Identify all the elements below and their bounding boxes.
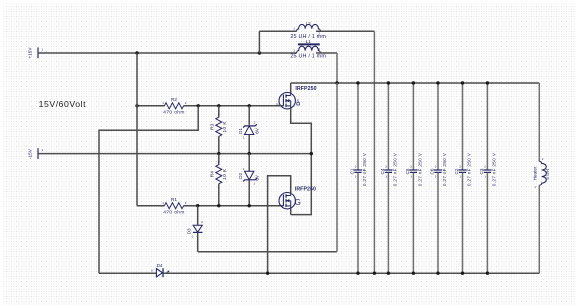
wire Q2 source stub [290, 208, 292, 214]
svg-text:0.27 nF 250 V: 0.27 nF 250 V [467, 152, 472, 186]
wire +15V rail [39, 52, 297, 54]
svg-text:C3: C3 [479, 168, 484, 174]
svg-text:+15V: +15V [28, 47, 33, 59]
wire Q1 drain stub [290, 83, 292, 93]
svg-text:6V: 6V [255, 127, 260, 134]
wire D3 cathode lead [197, 232, 199, 251]
node C6 top junction [436, 81, 439, 84]
svg-text:0.27 nF 250 V: 0.27 nF 250 V [492, 152, 497, 186]
node D2 bottom junction [248, 204, 251, 207]
wire R4 bottom lead [218, 184, 220, 206]
wire C6 top rail [437, 83, 439, 170]
wire Q2 drain loop [268, 176, 291, 273]
svg-text:L2: L2 [306, 21, 312, 26]
wire R3 top lead [218, 106, 220, 118]
resistor R4 10 K [209, 160, 228, 189]
resistor R3 10 K [209, 112, 228, 141]
wire top gate net left [137, 105, 165, 107]
svg-text:D1: D1 [238, 128, 243, 134]
svg-text:15V/60Volt: 15V/60Volt [39, 99, 87, 109]
wire C1 bottom rail [357, 173, 359, 274]
wire L1 drop [336, 53, 338, 83]
wire L2 left lead [259, 30, 296, 32]
capacitor C6 0.27nF [429, 152, 447, 186]
svg-text:D4: D4 [157, 263, 163, 268]
capacitor C3 0.27nF [479, 152, 497, 186]
zener D1 6V [238, 121, 260, 140]
wire L2 drop rail [373, 31, 375, 273]
node D3 top junction [196, 204, 199, 207]
wire L2 feed riser [258, 31, 260, 53]
node C5 bottom junction [412, 272, 415, 275]
svg-text:IRFP250: IRFP250 [295, 86, 316, 92]
node C5 top junction [412, 81, 415, 84]
wire -15V rail [39, 153, 312, 155]
node -15V/source junction [310, 152, 313, 155]
inductor L1 [290, 39, 326, 60]
wire L2 right lead [316, 30, 374, 32]
svg-text:C2: C2 [454, 168, 459, 174]
port -15V [28, 148, 44, 159]
svg-text:-15V: -15V [28, 148, 33, 159]
svg-text:C5: C5 [405, 168, 410, 174]
svg-text:470 ohm: 470 ohm [163, 209, 184, 215]
wire R4 top lead [218, 154, 220, 165]
node D1 bottom junction [248, 152, 251, 155]
svg-text:R4: R4 [209, 171, 215, 177]
svg-text:D2: D2 [238, 172, 243, 178]
node C4 bottom junction [387, 272, 390, 275]
wire D3 return run [198, 251, 337, 253]
node R2 right junction [197, 104, 200, 107]
wire C5 bottom rail [412, 173, 414, 274]
svg-text:6V: 6V [255, 174, 260, 181]
node Q2 drain / bottom bus junction [266, 272, 269, 275]
resistor R1 470 ohm [162, 197, 187, 215]
wire heater top rail [538, 83, 540, 161]
transistor Q1 IRFP250 [276, 86, 316, 109]
node R3 top junction [217, 104, 220, 107]
svg-text:D3: D3 [187, 228, 192, 234]
svg-text:R2: R2 [171, 97, 177, 103]
node C3 top junction [486, 81, 489, 84]
diode D4 [151, 263, 169, 277]
svg-text:0.27 nF 250 V: 0.27 nF 250 V [393, 152, 398, 186]
svg-text:R3: R3 [209, 123, 215, 129]
wire D1 top lead [248, 106, 250, 125]
svg-text:L1: L1 [306, 39, 312, 44]
wire L1 right lead [316, 52, 337, 54]
diode D3 [187, 220, 204, 239]
svg-text:10 K: 10 K [222, 121, 228, 133]
caption 15V/60Volt [39, 99, 87, 109]
port +15V [28, 47, 44, 59]
wire Q1 source lead [291, 108, 312, 153]
wire D2 top lead [248, 154, 250, 172]
svg-text:0.27 nF 250 V: 0.27 nF 250 V [442, 152, 447, 186]
wire C2 top rail [462, 83, 464, 170]
wire C3 bottom rail [486, 173, 488, 274]
wire Q1 source rail lower [291, 154, 312, 215]
node C1 top junction [356, 81, 359, 84]
wire top bus [291, 82, 540, 84]
wire C2 bottom rail [462, 173, 464, 274]
capacitor C4 0.27nF [380, 152, 398, 186]
capacitor C5 0.27nF [405, 152, 423, 186]
node C6 bottom junction [436, 272, 439, 275]
node C2 top junction [461, 81, 464, 84]
wire D1 bottom lead [248, 135, 250, 154]
inductor L3 heater [533, 157, 550, 189]
wire C5 top rail [412, 83, 414, 170]
svg-text:A: A [151, 269, 153, 273]
svg-text:C6: C6 [429, 168, 434, 174]
wire C3 top rail [486, 83, 488, 170]
wire C4 top rail [387, 83, 389, 170]
wire R3 bottom lead [218, 136, 220, 153]
node R3 bottom junction [217, 152, 220, 155]
node C4 top junction [387, 81, 390, 84]
transistor Q2 IRFP250 [279, 186, 316, 209]
svg-text:0.27 nF 250 V: 0.27 nF 250 V [418, 152, 423, 186]
svg-text:C4: C4 [380, 168, 385, 174]
wire bottom gate net left [137, 205, 165, 207]
node R2 left junction [135, 104, 138, 107]
wire C6 bottom rail [437, 173, 439, 274]
svg-text:0.27 nF 250 V: 0.27 nF 250 V [362, 152, 367, 186]
node D1 top junction [248, 104, 251, 107]
svg-text:G: G [295, 198, 301, 207]
wire bottom bus right [164, 272, 540, 274]
wire C4 bottom rail [387, 173, 389, 274]
zener D2 6V [238, 167, 260, 185]
svg-text:Heater: Heater [533, 166, 538, 180]
svg-text:5 UH: 5 UH [545, 169, 550, 179]
node +15V/R-string junction [135, 51, 138, 54]
svg-text:IRFP250: IRFP250 [295, 186, 316, 192]
wire D2 bottom lead [248, 180, 250, 205]
svg-text:25 UH / 1 mm: 25 UH / 1 mm [290, 53, 326, 59]
wire D3 return riser [336, 83, 338, 252]
wire bottom gate net right [184, 205, 284, 207]
svg-text:10 K: 10 K [222, 168, 228, 180]
svg-text:470 ohm: 470 ohm [163, 109, 184, 115]
node L2 rail bottom junction [373, 272, 376, 275]
wire R2-right jog to left rail [99, 106, 198, 273]
node C3 bottom junction [486, 272, 489, 275]
wire bottom bus left [99, 272, 156, 274]
node R4 bottom junction [217, 204, 220, 207]
node L1/top-bus junction [335, 81, 338, 84]
wire D3 anode lead [197, 206, 199, 226]
node C1 bottom junction [356, 272, 359, 275]
node C2 bottom junction [461, 272, 464, 275]
resistor R2 470 ohm [162, 97, 187, 115]
wire heater bottom rail [538, 185, 540, 273]
node +15V/L2 junction [258, 51, 261, 54]
wire C1 top rail [357, 83, 359, 170]
capacitor C2 0.27nF [454, 152, 472, 186]
svg-text:C1: C1 [349, 168, 354, 174]
inductor L2 [290, 21, 326, 40]
wire top gate net right [184, 105, 284, 107]
svg-text:R1: R1 [171, 197, 177, 203]
capacitor C1 0.27nF [349, 152, 367, 186]
wire bias riser [136, 53, 138, 206]
